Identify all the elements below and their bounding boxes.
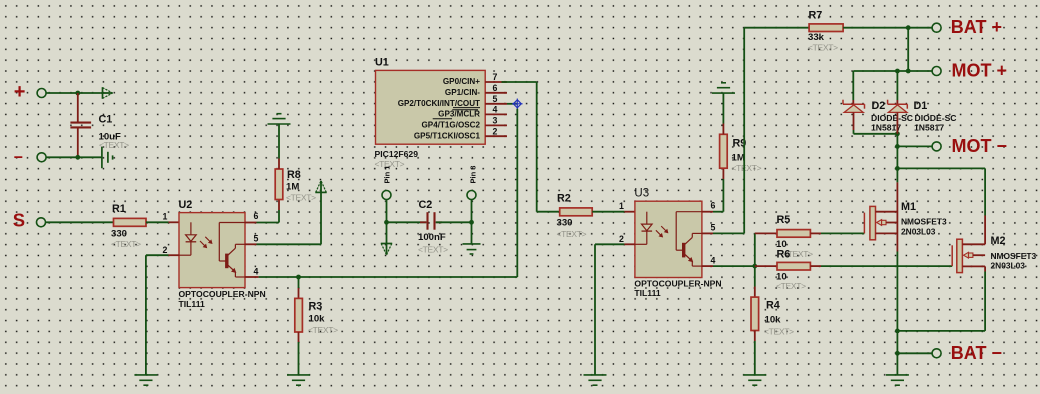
power (inverted earth) above R9 [722, 93, 724, 123]
U2 light arrows [200, 241, 206, 247]
ground (R3) [287, 374, 310, 376]
svg-text:2: 2 [619, 234, 624, 244]
wire U1 pin7 to R2 [502, 81, 537, 83]
svg-text:NMOSFET3: NMOSFET3 [991, 251, 1037, 261]
wire R6 to M2 gate [810, 265, 821, 267]
ground (C2 right) [471, 222, 473, 243]
capacitor C1 [77, 93, 79, 122]
terminal MOT + [932, 67, 941, 76]
svg-text:33k: 33k [808, 32, 825, 43]
wire U3 pin6 up to R9 [713, 211, 723, 213]
ground (BAT-) [886, 374, 909, 376]
svg-text:4: 4 [493, 105, 498, 115]
wire R2 to U3 pin1 [592, 211, 624, 213]
svg-text:1: 1 [163, 212, 168, 222]
wire U2 pin4 long net to U1 pin5 [259, 276, 518, 278]
svg-text:R6: R6 [777, 249, 791, 261]
wire M2 source to BAT- [984, 266, 986, 271]
svg-text:2N03L03: 2N03L03 [991, 261, 1026, 271]
wire jog to M2 drain [897, 167, 985, 169]
terminal BAT - [932, 349, 941, 358]
resistor R3 [298, 277, 300, 288]
resistor R1 [114, 218, 147, 226]
svg-text:5: 5 [254, 234, 259, 244]
resistor R8 [278, 200, 280, 211]
ground (U2 pin2) [134, 374, 157, 376]
svg-text:7: 7 [493, 72, 498, 82]
node junction R4/R5/R6 [752, 264, 757, 269]
svg-text:Pin 1: Pin 1 [383, 166, 392, 184]
svg-text:R4: R4 [766, 300, 780, 312]
svg-text:S: S [13, 210, 25, 231]
svg-text:GP0/CIN+: GP0/CIN+ [443, 77, 480, 86]
svg-text:<TEXT>: <TEXT> [111, 239, 141, 249]
node junction MOT+ a [895, 69, 900, 74]
node junction MOT+ b [906, 69, 911, 74]
svg-text:5: 5 [711, 223, 716, 233]
node junction D2/D1 [895, 131, 900, 136]
svg-text:C2: C2 [419, 199, 433, 211]
U2 LED diode [190, 222, 192, 235]
node marker (blue diamond) on U1 pin5 [507, 103, 517, 105]
terminal arrow right (output to +V) [100, 92, 112, 94]
svg-text:6: 6 [493, 83, 498, 93]
op U2 optocoupler body [179, 213, 245, 288]
svg-text:1M: 1M [286, 182, 299, 193]
svg-text:R3: R3 [309, 301, 323, 313]
wire MOT- row [897, 145, 932, 147]
svg-text:BAT −: BAT − [951, 343, 1002, 363]
wire D2 anode to D1 anode [853, 130, 855, 134]
svg-text:DIODE-SC: DIODE-SC [915, 113, 957, 123]
power (inverted earth) above R8 [278, 124, 280, 159]
resistor R4 [754, 266, 756, 286]
ic U1 PIC12F629 [376, 70, 486, 144]
node junction on + wire [75, 91, 80, 96]
svg-text:<TEXT>: <TEXT> [418, 245, 448, 255]
wire R3 to ground [298, 342, 300, 375]
U2 phototransistor [219, 222, 245, 224]
svg-text:6: 6 [711, 200, 716, 210]
svg-text:<TEXT>: <TEXT> [808, 43, 838, 53]
svg-text:<TEXT>: <TEXT> [776, 281, 806, 291]
svg-text:GP5/T1CKI/OSC1: GP5/T1CKI/OSC1 [414, 131, 481, 140]
svg-text:+: + [14, 81, 26, 103]
svg-text:<TEXT>: <TEXT> [557, 229, 587, 239]
wire U3 pin5 up to R7 [713, 232, 744, 234]
diode D2 (schottky, cathode up) [852, 100, 854, 104]
node junction MOT- [895, 144, 900, 149]
svg-text:6: 6 [254, 211, 259, 221]
svg-text:10k: 10k [309, 314, 326, 325]
capacitor C2 [384, 220, 389, 225]
U3 LED diode [646, 212, 648, 225]
node junction R3 tap [296, 275, 301, 280]
svg-text:DIODE-SC: DIODE-SC [871, 113, 913, 123]
resistor R9 [722, 168, 724, 179]
svg-text:2: 2 [493, 126, 498, 136]
svg-text:TIL111: TIL111 [634, 288, 660, 298]
wire D1 cathode from MOT+ [896, 71, 898, 100]
terminal MOT - [932, 142, 941, 151]
wire U2 pin2 to ground [146, 254, 169, 256]
svg-text:<TEXT>: <TEXT> [764, 327, 794, 337]
wire U2 pin5 to up-arrow terminal [257, 243, 322, 245]
terminal BAT + [932, 23, 941, 32]
op U3 optocoupler body [635, 201, 702, 277]
svg-text:R2: R2 [557, 193, 571, 205]
wire R7 to BAT+ [843, 27, 932, 29]
svg-text:BAT +: BAT + [951, 17, 1002, 37]
svg-text:Pin 8: Pin 8 [469, 166, 478, 184]
svg-text:<TEXT>: <TEXT> [732, 163, 762, 173]
wire right vertical trunk [896, 134, 898, 183]
ground (U3 pin2) [584, 374, 607, 376]
svg-text:TIL111: TIL111 [179, 299, 205, 309]
svg-text:MOT +: MOT + [952, 61, 1008, 81]
svg-text:2: 2 [163, 245, 168, 255]
svg-text:4: 4 [711, 255, 716, 265]
node junction BAT+ [906, 25, 911, 30]
resistor R2 [560, 208, 593, 216]
svg-text:5: 5 [493, 94, 498, 104]
svg-text:1: 1 [619, 201, 624, 211]
resistor R7 [809, 24, 843, 32]
wire U1 pin5 net down-left to U2 pin4 [516, 109, 518, 277]
node junction jog [895, 166, 900, 171]
overline marks (COUT, MCLR, T1G) [453, 107, 480, 109]
svg-text:D2: D2 [872, 100, 886, 112]
wire [46, 156, 102, 158]
svg-text:R7: R7 [809, 10, 823, 22]
svg-text:<TEXT>: <TEXT> [99, 140, 129, 150]
svg-text:1M: 1M [732, 153, 745, 164]
U3 light arrows [656, 230, 662, 236]
svg-text:1N5817: 1N5817 [914, 122, 944, 132]
svg-text:U1: U1 [375, 57, 389, 69]
svg-text:−: − [14, 150, 23, 167]
wire MOT+ row [853, 70, 932, 72]
svg-text:330: 330 [111, 229, 127, 240]
terminal arrow up [320, 181, 322, 245]
wire BAT+ down to MOT+ [907, 28, 909, 71]
svg-text:10k: 10k [765, 315, 782, 326]
wire BAT- to ground [896, 353, 898, 374]
node junction M2 source join [895, 329, 900, 334]
node junction BAT- [895, 351, 900, 356]
wire R1 to U2 pin1 [146, 221, 169, 223]
svg-text:R8: R8 [287, 169, 301, 181]
svg-text:R1: R1 [112, 203, 126, 215]
svg-text:C1: C1 [99, 114, 113, 126]
svg-text:<TEXT>: <TEXT> [286, 193, 316, 203]
svg-text:D1: D1 [914, 100, 928, 112]
wire R4 to ground [754, 341, 756, 375]
svg-text:330: 330 [557, 218, 573, 229]
ground (sideways earth) [101, 147, 103, 168]
wire MOT+ down to D2 [852, 71, 854, 100]
svg-text:GP4/T1G/OSC2: GP4/T1G/OSC2 [422, 121, 481, 130]
resistor R5 [754, 233, 756, 266]
wire BAT- [897, 352, 932, 354]
svg-text:GP1/CIN-: GP1/CIN- [445, 88, 480, 97]
svg-text:R5: R5 [777, 214, 791, 226]
wire U3 pin4 to junction [713, 265, 755, 267]
transistor M1 NMOS [863, 213, 865, 234]
terminal arrow down (C2 left) [386, 222, 388, 255]
wire S to R1 [45, 221, 113, 223]
svg-text:GP3/MCLR: GP3/MCLR [438, 110, 480, 119]
svg-text:MOT −: MOT − [952, 136, 1008, 156]
transistor M2 NMOS [951, 245, 953, 266]
wire R5 to M1 gate [810, 232, 821, 234]
svg-text:OPTOCOUPLER-NPN: OPTOCOUPLER-NPN [634, 278, 721, 288]
svg-text:3: 3 [493, 116, 498, 126]
svg-text:100nF: 100nF [418, 232, 446, 243]
svg-text:M2: M2 [991, 235, 1006, 247]
wire U2 pin6 to R8 [257, 222, 280, 224]
svg-text:U3: U3 [634, 188, 649, 200]
svg-text:4: 4 [254, 267, 259, 277]
diode D1 (schottky, cathode up) [896, 100, 898, 104]
svg-text:2N03L03: 2N03L03 [901, 226, 936, 236]
svg-text:<TEXT>: <TEXT> [308, 325, 338, 335]
wire U3 pin2 to ground [595, 243, 624, 245]
ground (R4) [743, 374, 766, 376]
U3 phototransistor [676, 211, 702, 213]
svg-text:GP2/T0CKI/INT/COUT: GP2/T0CKI/INT/COUT [398, 99, 480, 108]
node junction on - wire [75, 155, 80, 160]
svg-text:M1: M1 [901, 201, 916, 213]
svg-text:OPTOCOUPLER-NPN: OPTOCOUPLER-NPN [179, 289, 266, 299]
wire [46, 92, 101, 94]
svg-text:PIC12F629: PIC12F629 [375, 149, 419, 159]
svg-text:NMOSFET3: NMOSFET3 [901, 217, 947, 227]
svg-text:U2: U2 [179, 199, 193, 211]
